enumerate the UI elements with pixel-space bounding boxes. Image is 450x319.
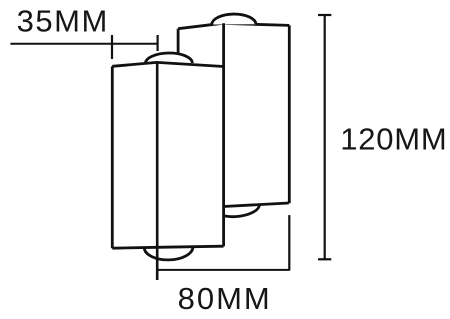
svg-text:80MM: 80MM xyxy=(178,281,272,316)
svg-text:120MM: 120MM xyxy=(340,122,447,157)
svg-text:35MM: 35MM xyxy=(17,4,109,39)
